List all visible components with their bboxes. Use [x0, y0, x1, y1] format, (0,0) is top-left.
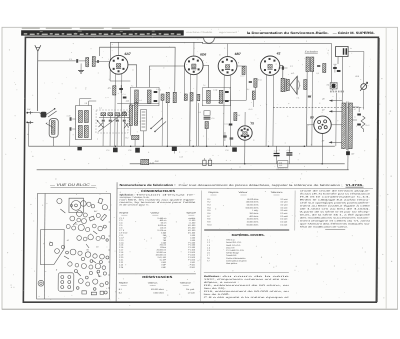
caps T0: [70, 117, 71, 120]
svg-text:machine Chablis: machine Chablis: [186, 32, 213, 34]
capacitor C17 on bus: [135, 148, 140, 153]
component on cathode bus: [203, 160, 206, 165]
wire: T0 tops: [80, 99, 92, 106]
svg-text:C.12: C.12: [238, 129, 242, 131]
coil L1 aerial: [86, 58, 89, 67]
svg-text:C.11: C.11: [224, 123, 228, 125]
wire: pot leads: [53, 137, 55, 146]
coil T0 d: [84, 126, 88, 138]
svg-text:que l'Aimant des éléments: que l'Aimant des éléments indiqués sur: [300, 223, 371, 226]
svg-text:1/2 watt: 1/2 watt: [280, 204, 287, 207]
svg-text:R.1: R.1: [108, 88, 111, 90]
output transformer secondary: [286, 79, 289, 90]
svg-text:Repère: Repère: [119, 281, 129, 284]
svg-text:1/2 watt: 1/2 watt: [280, 198, 287, 201]
svg-text:P 500: P 500: [190, 267, 196, 269]
wire: cap to coil: [79, 60, 86, 62]
svg-text:C.3: C.3: [123, 94, 126, 96]
svg-text:350 ohms: 350 ohms: [250, 213, 259, 215]
svg-text:25.000 ohms: 25.000 ohms: [247, 219, 259, 221]
oscillator coil L3: [129, 105, 132, 126]
trimmer cap at 125.2: [122, 113, 127, 116]
wire: coil to tube grid: [95, 61, 109, 63]
svg-text:T.1: T.1: [131, 85, 133, 87]
phono jack PU: [27, 111, 33, 124]
capacitor C13b: [249, 82, 252, 83]
wire: grid coupling V3-V4: [202, 66, 246, 100]
svg-text:Haut-parleur.: Haut-parleur.: [226, 262, 238, 265]
svg-text:C.23: C.23: [287, 150, 291, 152]
svg-text:C.2: C.2: [99, 108, 102, 110]
svg-text:Repère: Repère: [119, 211, 129, 214]
wire: osc top link: [117, 103, 159, 105]
svg-text:R.8 et le condensateur C.1: R.8 et le condensateur C.14.: [300, 196, 371, 199]
IF transformer T0 box (2nd IF can): [75, 106, 91, 140]
svg-text:R.6: R.6: [237, 115, 240, 117]
wire: AVC riser: [109, 42, 111, 81]
wire: rectifier leads: [307, 125, 314, 146]
wire: screen rail loop: [99, 47, 175, 92]
coil T1 primary: [135, 90, 139, 103]
wire: dial lamp dashed feed: [273, 107, 363, 109]
svg-text:C.13: C.13: [240, 76, 244, 78]
svg-text:C.15: C.15: [179, 157, 183, 159]
tube V1 6A7: [109, 55, 128, 74]
svg-text:R.4: R.4: [125, 137, 128, 140]
svg-text:L.3: L.3: [126, 101, 129, 103]
wire: V6 drop: [244, 140, 246, 164]
svg-text:Accord P.O.-G.O.: Accord P.O.-G.O.: [226, 241, 242, 244]
tube V3 6B7: [218, 57, 237, 76]
modifications paragraph: [204, 272, 289, 274]
trimmer caps T1: [154, 92, 158, 93]
capacitor C19 on bus: [232, 147, 237, 151]
svg-text:Self de filtrage: Self de filtrage: [226, 252, 240, 255]
svg-text:Valeur: Valeur: [148, 281, 157, 284]
svg-text:CONDENSATEURS: CONDENSATEURS: [141, 189, 175, 193]
trimmer cap at 118.2: [115, 113, 120, 116]
wire: V3 cathode drops: [223, 75, 226, 147]
svg-text:Enfin le câblage fut aussi: Enfin le câblage fut aussi retou-: [300, 199, 371, 202]
ground: input coil: [80, 64, 82, 71]
capacitor C3: [119, 89, 123, 90]
speaker cone: [290, 76, 297, 94]
junction dots on buses: [115, 145, 117, 147]
svg-text:écran (R.7) formée par la: écran (R.7) formée par la résistance: [300, 193, 372, 196]
svg-text:0,05: 0,05: [279, 165, 282, 167]
svg-text:500.000 ohms: 500.000 ohms: [151, 289, 164, 291]
svg-text:C.1: C.1: [69, 59, 72, 61]
wire: mains leads: [337, 57, 339, 65]
power transformer core: [346, 102, 348, 151]
switch S1 arm: [46, 109, 56, 117]
wire: B+ riser to Int: [330, 44, 332, 83]
transformer taps left: [329, 100, 342, 102]
svg-text:Valeur: Valeur: [150, 211, 159, 214]
wire: field riser: [311, 72, 314, 146]
svg-text:VI-4736.: VI-4736.: [346, 183, 364, 187]
svg-text:1/2 watt: 1/2 watt: [280, 206, 287, 209]
svg-text:l'état de modification de: l'état de modification de valeur.: [300, 226, 349, 229]
switch S1 body: [41, 112, 47, 118]
wire: ground return bus: [37, 169, 349, 171]
svg-text:chute de chute de tension: chute de chute de tension plaque-: [300, 190, 371, 193]
trimmer cap at 111.2: [108, 113, 113, 116]
output transformer core: [285, 78, 286, 92]
wire: V2 plate to T2: [203, 65, 209, 87]
bleeder zigzag: [361, 116, 365, 132]
column rules: [115, 182, 118, 301]
power transformer secondary: [349, 103, 353, 149]
IF transformer T2 box: [202, 88, 230, 106]
chassis view layout drawing: [37, 194, 111, 300]
svg-text:1 még.: 1 még.: [252, 210, 259, 212]
svg-text:R6, antérieurement de 50 o: R6, antérieurement de 50 ohms, au: [204, 284, 291, 287]
capacitor C12 cluster: [223, 136, 227, 137]
grid leak R11: [254, 79, 257, 88]
svg-text:1/2 watt: 1/2 watt: [280, 218, 287, 221]
svg-text:1/2 watt: 1/2 watt: [280, 221, 287, 224]
choke field coil winding a: [306, 57, 309, 72]
svg-text:lieu de 26).: lieu de 26).: [204, 288, 227, 290]
wire: jack to switch: [33, 113, 40, 114]
capacitor C24 block: [346, 151, 350, 155]
coil T1 secondary: [147, 90, 151, 103]
wire: osc coil drops: [130, 126, 132, 136]
wire: V6 feed: [244, 112, 246, 126]
svg-text:— Génér M. SUPER56.: — Génér M. SUPER56.: [333, 31, 375, 35]
svg-text:1937, d'importants schémas ont: 1937, d'importants schémas ont été mo-: [204, 278, 290, 281]
coil T2 secondary: [219, 90, 223, 103]
svg-text:ment d'origine et celles d: ment d'origine et celles du VI, ainsi: [300, 220, 371, 223]
wire: AVC drop: [206, 129, 208, 147]
wire: T1 to V2 grid: [149, 66, 184, 87]
wire: C6 drop: [161, 100, 163, 146]
wire: Int drops: [332, 89, 334, 91]
oscillator coil L4: [134, 103, 138, 126]
switch Int block: [330, 83, 337, 90]
coil L2 aerial: [92, 57, 95, 67]
svg-text:de 1.000 cm au lieu de 4: de 1.000 cm au lieu de 4.000).: [300, 209, 371, 211]
svg-text:8 MF: 8 MF: [161, 267, 166, 269]
svg-text:42: 42: [276, 52, 281, 56]
wire: T0 cap drop: [69, 131, 71, 146]
capacitor C8b: [197, 94, 200, 101]
svg-text:Modifications :: Modifications :: [204, 275, 221, 278]
coil T0 c: [84, 111, 88, 123]
pilot lamp LP: [361, 84, 367, 90]
band switch arms: [151, 119, 166, 132]
svg-text:10.000 ohms: 10.000 ohms: [247, 199, 259, 201]
svg-text:0,5: 0,5: [316, 73, 319, 75]
svg-text:60.000 ohms: 60.000 ohms: [247, 224, 259, 226]
svg-text:50.000 ohms: 50.000 ohms: [247, 205, 259, 207]
binder notch: [204, 38, 215, 43]
svg-text:des modifications successive: des modifications successives notam-: [300, 217, 371, 220]
capacitor C15b: [308, 96, 311, 97]
svg-text:Repère: Repère: [208, 191, 219, 194]
tube V4 42: [260, 56, 280, 75]
svg-text:C.9: C.9: [211, 118, 214, 120]
resistor R4: [132, 135, 139, 139]
svg-text:agenouxd: agenouxd: [219, 32, 238, 34]
svg-text:C.5: C.5: [156, 89, 159, 91]
wire: lamp feed: [348, 52, 364, 84]
svg-text:Pour tout désassortiment de pi: Pour tout désassortiment de pièces détac…: [179, 183, 343, 187]
svg-text:Cordon d'alimentation: Cordon d'alimentation: [226, 257, 245, 260]
header: dark title band (reversed text): [21, 30, 184, 35]
capacitor C14b: [317, 66, 320, 67]
svg-text:R.15: R.15: [366, 125, 370, 127]
svg-text:la Documentation du Servicemen: la Documentation du Servicemen-Radio.: [247, 31, 329, 35]
svg-text:Tolérance: Tolérance: [180, 281, 192, 284]
svg-text:Excitation: Excitation: [305, 51, 319, 54]
main border frame: [23, 37, 378, 302]
AVC stack R5 C9: [204, 111, 210, 116]
antenna: [34, 45, 41, 111]
tube V5 80 rectifier: [314, 116, 332, 133]
mains input box: [336, 47, 349, 57]
resistor R13: [304, 80, 307, 90]
wire: padder drops: [102, 122, 104, 146]
svg-text:Valeur: Valeur: [238, 191, 247, 194]
svg-text:T.2: T.2: [203, 85, 205, 87]
svg-text:1/2 watt: 1/2 watt: [280, 201, 287, 204]
wire: rail y81: [110, 80, 130, 82]
capacitor C13: [282, 66, 283, 70]
svg-text:— VUE DU BLOC —: — VUE DU BLOC —: [49, 183, 97, 187]
capacitor C16 on bus: [113, 148, 118, 153]
svg-text:1/2 watt: 1/2 watt: [280, 215, 287, 218]
wire: cathode bus: [130, 163, 345, 165]
trimmer caps T2: [225, 92, 229, 93]
svg-text:RÉSISTANCES: RÉSISTANCES: [142, 274, 172, 279]
wave switch left: [98, 121, 104, 127]
svg-text:lieu de 5.000.: lieu de 5.000.: [204, 294, 231, 296]
svg-text:Tête G.O.: Tête G.O.: [226, 239, 235, 242]
svg-text:R.11: R.11: [258, 80, 262, 82]
wire: V1 cathode drops: [114, 73, 117, 146]
transformer taps right: [352, 107, 359, 112]
capacitor C18 on bus: [172, 147, 177, 151]
wire: grid leak drop: [254, 87, 256, 91]
tube V6 75: [238, 126, 253, 140]
potentiometer P1: [49, 119, 58, 138]
capacitor on bus under T0: [77, 147, 81, 150]
resistor R7: [242, 67, 245, 75]
svg-text:Tolérance: Tolérance: [270, 191, 283, 194]
svg-text:C.8 a été ajouté à la même épo: C.8 a été ajouté à la même époque et: [204, 296, 290, 299]
choke field coil winding b: [310, 57, 313, 72]
svg-text:R.10: R.10: [249, 109, 253, 111]
svg-text:1/2 watt: 1/2 watt: [188, 292, 195, 295]
capacitor C1: [77, 59, 78, 63]
svg-text:1/2 watt: 1/2 watt: [280, 209, 287, 212]
resistor R14: [323, 64, 326, 73]
padder line: [99, 116, 129, 118]
trimmer cap input: [97, 60, 98, 63]
svg-text:P.U.: P.U.: [27, 109, 31, 111]
svg-text:0,1: 0,1: [247, 89, 250, 91]
svg-text:400 ohms: 400 ohms: [249, 216, 258, 218]
svg-text:et de service pour C.: et de service pour C.: [119, 203, 150, 206]
capacitor C11: [229, 124, 233, 125]
svg-text:80: 80: [310, 116, 314, 120]
wire: V1 plate to T1: [128, 65, 137, 88]
svg-text:2×8: 2×8: [279, 161, 282, 164]
svg-text:MATÉRIEL DIVERS: MATÉRIEL DIVERS: [232, 232, 264, 237]
svg-text:H.P.: H.P.: [291, 73, 295, 75]
power transformer T3 primary: [342, 103, 346, 149]
wire: top B+ rail left: [110, 42, 331, 43]
svg-text:Pot. grad.: Pot. grad.: [186, 288, 195, 291]
electrolytic value box: [278, 161, 288, 168]
svg-text:C.19: C.19: [150, 162, 154, 164]
wire: V4 cathode drops: [265, 75, 268, 146]
svg-text:ment au filtre (valeur éga: ment au filtre (valeur égale à celle: [300, 205, 372, 208]
svg-text:R.5: R.5: [198, 112, 201, 114]
svg-text:C.00: C.00: [67, 115, 71, 117]
trimmer cap at 104.2: [101, 113, 106, 116]
svg-text:500.000 ohms: 500.000 ohms: [246, 207, 259, 209]
resistor R3: [190, 93, 193, 102]
resistor R12: [252, 91, 255, 100]
svg-text:chimiques: chimiques: [276, 168, 288, 170]
resistor R1: [113, 86, 116, 95]
svg-text:6B7: 6B7: [235, 52, 241, 56]
svg-text:10.000 ohms: 10.000 ohms: [247, 222, 259, 224]
capacitor C7: [184, 94, 187, 101]
svg-text:1/2 watt: 1/2 watt: [280, 223, 287, 226]
svg-text:Commutateur de genre.: Commutateur de genre.: [226, 259, 248, 262]
wire: detector grid drop: [183, 66, 185, 94]
gang arrow: [98, 112, 125, 132]
detector coil group: [166, 92, 169, 103]
svg-text:Nomenclature de fabrication :: Nomenclature de fabrication :: [120, 183, 176, 187]
capacitor C20 pack: [141, 159, 149, 165]
header: faint top marks: [22, 27, 130, 29]
wire: speaker return: [306, 72, 309, 146]
wire: V4 plate to output transformer: [280, 66, 283, 79]
wire: antenna to input coil: [38, 60, 76, 62]
svg-text:ché sur quelques points pa: ché sur quelques points particulière-: [300, 202, 371, 205]
svg-text:C.22: C.22: [274, 151, 278, 153]
capacitor C4: [123, 97, 127, 98]
svg-text:Au cours de la série: Au cours de la série: [222, 275, 291, 278]
wire: tube top caps: [118, 42, 120, 55]
svg-text:1/2 watt: 1/2 watt: [280, 212, 287, 215]
svg-text:difiées, à savoir :: difiées, à savoir :: [204, 281, 240, 284]
wire: HT bus: [28, 145, 335, 147]
tube V2 6D6: [184, 56, 203, 75]
svg-text:CV 2×460 P.O.-G.O.: CV 2×460 P.O.-G.O.: [226, 249, 245, 252]
resistances table col1: [118, 273, 196, 275]
wire: lamp leads: [362, 90, 364, 109]
wave switch right: [124, 122, 129, 129]
coil T2 primary: [207, 90, 211, 103]
svg-text:L.4: L.4: [139, 99, 142, 102]
capacitor C6: [161, 94, 164, 100]
svg-text:teurs, de la série 45 1,: teurs, de la série 45 1, a été apporté: [300, 214, 372, 217]
resistor R6: [234, 113, 237, 121]
svg-text:T.S.: T.S.: [296, 98, 300, 100]
padder stack box: [141, 109, 147, 130]
svg-text:R15, antérieurement de 50.000: R15, antérieurement de 50.000 ohms, au: [204, 290, 291, 293]
IF transformer T1 box: [130, 87, 159, 105]
tuning gang dashed box: [96, 110, 128, 133]
wire: det drops: [166, 103, 168, 146]
svg-text:Spécial?: Spécial?: [186, 212, 196, 214]
wire: left riser: [28, 122, 30, 146]
coil T0 a: [78, 111, 82, 123]
svg-text:150.000 ohms: 150.000 ohms: [246, 202, 259, 204]
terminal strip ticks: [330, 91, 343, 93]
svg-text:A partir de la série D e: A partir de la série D et par 10 récep-: [300, 211, 371, 214]
output transformer primary: [281, 78, 285, 92]
coil T0 b: [78, 126, 82, 138]
